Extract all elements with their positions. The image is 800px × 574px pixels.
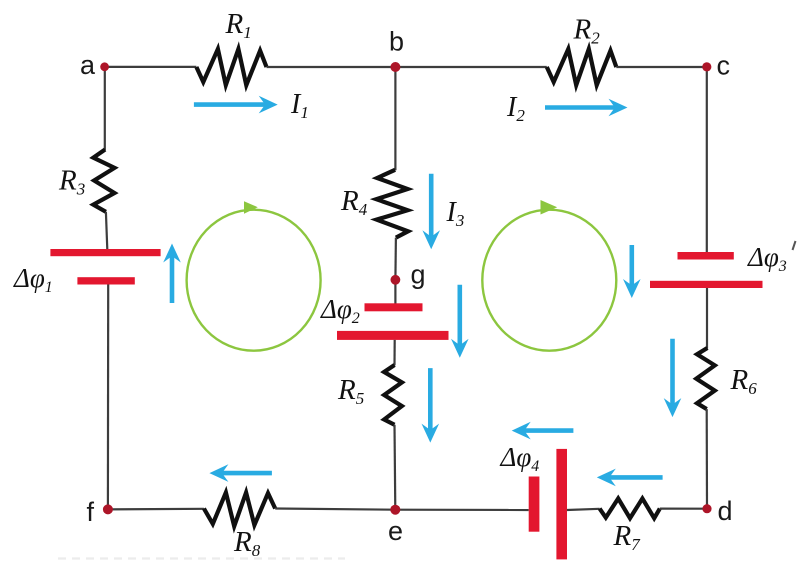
- arrow left above R8: [220, 471, 272, 476]
- arrow left above R7: [608, 475, 663, 480]
- svg-text:c: c: [717, 50, 731, 80]
- svg-text:a: a: [80, 50, 96, 80]
- resistor R7: [600, 499, 660, 519]
- battery D4 long plate: [556, 449, 567, 560]
- node f: [103, 504, 113, 514]
- wire g-battery2: [394, 280, 396, 304]
- node a: [100, 62, 109, 71]
- wire a-R1: [105, 66, 197, 68]
- wire battery2-R5: [393, 340, 395, 366]
- resistor R5: [384, 365, 402, 425]
- battery D3 short plate: [678, 252, 734, 260]
- wire b-R2: [395, 66, 546, 68]
- svg-text:d: d: [718, 496, 733, 526]
- tick mark after dphi3: [793, 241, 796, 250]
- faint artifact line: [58, 557, 345, 559]
- wire a-R3: [104, 67, 106, 150]
- resistor R4: [376, 170, 408, 238]
- wire f-R8: [108, 508, 204, 511]
- wire R4-g: [394, 238, 397, 280]
- battery D2 short plate: [365, 303, 423, 311]
- wire battery4-R7: [567, 509, 600, 510]
- battery D3 long plate: [650, 281, 763, 288]
- wire R3-battery1: [106, 212, 107, 250]
- wire battery3-R6: [706, 288, 708, 348]
- svg-text:g: g: [411, 260, 426, 290]
- node b: [390, 62, 400, 72]
- svg-text:f: f: [87, 497, 95, 527]
- arrow down beside R5: [428, 368, 433, 432]
- node g: [391, 275, 401, 285]
- arrow left above battery D4: [523, 428, 574, 433]
- wire battery1-f: [107, 285, 109, 510]
- node c: [702, 62, 711, 71]
- arrow down beside battery D3: [629, 245, 634, 287]
- arrow down beside battery D2: [457, 285, 462, 347]
- resistor R8: [204, 493, 275, 527]
- resistor R3: [93, 150, 114, 212]
- current arrow I1: [194, 102, 267, 107]
- resistor R1: [196, 49, 266, 85]
- current arrow I2: [545, 105, 617, 110]
- loop arrow left (green circle): [187, 210, 321, 351]
- battery D1 long plate: [50, 249, 160, 256]
- resistor R6: [696, 348, 715, 409]
- svg-text:e: e: [388, 516, 403, 546]
- wire R2-c: [616, 66, 707, 68]
- svg-text:b: b: [389, 27, 404, 57]
- wire R1-b: [267, 66, 396, 68]
- resistor R2: [547, 49, 617, 85]
- wire R5-e: [393, 425, 396, 510]
- arrow down beside R6: [670, 339, 675, 406]
- arrow up beside battery D1: [170, 255, 175, 304]
- wire R6-d: [706, 409, 708, 509]
- loop arrow right (green circle): [482, 210, 616, 351]
- current arrow I3: [429, 174, 434, 239]
- battery D2 long plate: [337, 331, 449, 340]
- battery D1 short plate: [77, 277, 134, 284]
- wire b-R4: [394, 67, 396, 170]
- node e: [390, 505, 400, 515]
- wire R7-d: [660, 508, 707, 510]
- wire e-battery4: [395, 509, 528, 511]
- wire c-battery3: [706, 67, 708, 252]
- node d: [702, 504, 711, 513]
- battery D4 short plate: [529, 477, 540, 532]
- wire R8-e: [275, 509, 395, 510]
